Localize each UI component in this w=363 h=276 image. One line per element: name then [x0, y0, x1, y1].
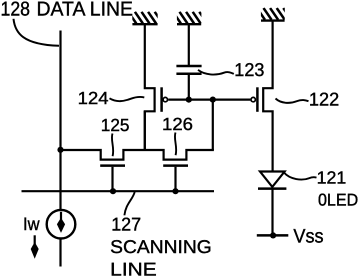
node dot at Vss	[270, 232, 276, 238]
svg-text:125: 125	[101, 115, 130, 135]
wire OLED to Vss	[271, 189, 273, 236]
capacitor 123 top lead	[188, 24, 190, 65]
current source Iw circle	[47, 210, 76, 239]
svg-text:127: 127	[111, 214, 141, 235]
transistor 125 gate bar	[100, 164, 125, 167]
svg-text:Iw: Iw	[23, 214, 40, 234]
transistor 122 source/drain path (ground to OLED)	[263, 21, 272, 172]
svg-text:126: 126	[162, 114, 193, 134]
leader line for 127	[124, 192, 134, 215]
node dot on data line at row	[57, 147, 63, 153]
Iw direction arrow	[34, 235, 36, 244]
transistor 126 gate bar	[163, 164, 188, 167]
OLED 121 cathode bar	[258, 187, 286, 190]
current source arrow	[60, 212, 62, 222]
wire riser from gate node down to 126 drain	[212, 100, 214, 150]
svg-text:121: 121	[317, 167, 347, 187]
leader line for 126	[175, 133, 176, 156]
wire data line 128 (vertical)	[59, 31, 61, 267]
wire scanning line 127 (horizontal)	[22, 190, 215, 192]
leader line for 128 to data line	[14, 19, 60, 46]
svg-text:SCANNING: SCANNING	[110, 236, 212, 257]
transistor 122 gate bubble	[251, 97, 255, 101]
node dot gate 125 on scanning line	[110, 188, 116, 194]
transistor 126 gate lead	[174, 167, 176, 191]
leader line for 121	[284, 173, 316, 180]
node dot at 126 drain riser	[210, 97, 216, 103]
wire gate node (124 bubble to 122 bubble)	[168, 98, 250, 100]
transistor 125 gate lead	[111, 167, 113, 191]
OLED 121 diode triangle	[260, 172, 285, 187]
node dot gate 126 on scanning line	[172, 188, 178, 194]
leader line for 124	[110, 97, 145, 101]
svg-text:LINE: LINE	[110, 258, 157, 276]
transistor 124 source/drain path (from ground down through staple to node)	[145, 24, 155, 150]
svg-text:0LED: 0LED	[318, 190, 358, 209]
svg-text:123: 123	[234, 59, 264, 80]
transistor 124 gate bar	[160, 87, 163, 112]
wire from row T-junction up to 124	[144, 111, 146, 150]
transistor 122 gate bar	[256, 87, 259, 112]
leader line for 125	[112, 134, 113, 157]
Vss terminal bar	[257, 234, 289, 237]
transistor 124 gate bubble	[163, 97, 167, 101]
node dot under capacitor	[186, 97, 192, 103]
ground symbol above transistor 124	[128, 12, 162, 24]
svg-text:124: 124	[78, 88, 109, 108]
svg-text:Vss: Vss	[293, 226, 323, 248]
ground symbol above capacitor 123	[173, 12, 207, 24]
svg-text:128: 128	[1, 0, 31, 20]
ground symbol above transistor 122	[257, 8, 291, 21]
leader line for 122	[276, 99, 309, 103]
wire row: data line to 125, between 125 and 126, 126 to riser	[61, 150, 214, 160]
capacitor 123 top plate	[176, 65, 201, 68]
leader line for 123	[198, 70, 234, 75]
capacitor 123 bottom plate	[176, 72, 201, 75]
svg-text:122: 122	[309, 89, 339, 110]
svg-text:DATA LINE: DATA LINE	[37, 0, 134, 20]
capacitor 123 bottom lead	[188, 75, 190, 100]
